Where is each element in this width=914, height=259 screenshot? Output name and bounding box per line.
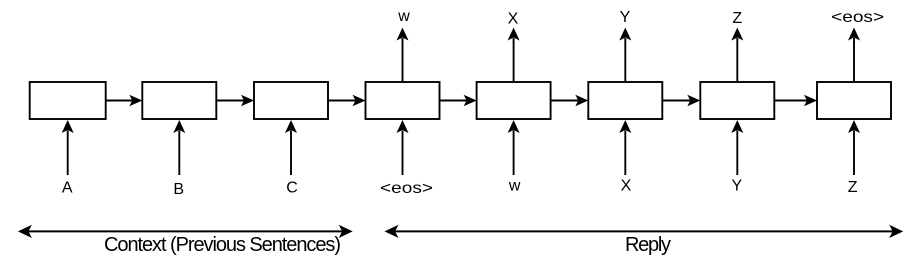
output arrow Y from box 6 [619, 28, 631, 83]
RNN cell box 1 [30, 82, 106, 119]
input arrow C into box 3 [285, 120, 297, 175]
wire arrow box3 to box4 [328, 95, 366, 107]
svg-text:Z: Z [848, 179, 858, 196]
svg-text:<eos>: <eos> [380, 180, 433, 197]
RNN cell box 5 [477, 82, 551, 119]
svg-text:Context (Previous Sentences): Context (Previous Sentences) [104, 234, 341, 256]
svg-text:Z: Z [732, 10, 742, 27]
svg-text:w: w [508, 177, 521, 194]
output arrow w from box 4 [397, 28, 409, 83]
input arrow B into box 2 [173, 120, 185, 175]
input arrow eos into box 4 [397, 120, 409, 175]
RNN cell box 8 [817, 82, 891, 119]
RNN cell box 4 [366, 82, 440, 119]
output arrow eos from box 8 [848, 28, 860, 83]
svg-text:<eos>: <eos> [831, 9, 884, 26]
output arrow X from box 5 [508, 28, 520, 83]
RNN cell box 3 [254, 82, 328, 119]
wire arrow box7 to box8 [774, 95, 817, 107]
svg-text:Reply: Reply [625, 234, 671, 256]
input arrow X into box 6 [619, 120, 631, 175]
wire arrow box1 to box2 [106, 95, 143, 107]
input arrow Z into box 8 [848, 120, 860, 175]
RNN cell box 6 [588, 82, 662, 119]
svg-text:X: X [508, 10, 519, 27]
wire arrow box2 to box3 [216, 95, 254, 107]
svg-text:A: A [62, 180, 73, 197]
RNN cell box 7 [700, 82, 774, 119]
svg-text:w: w [397, 8, 410, 25]
svg-text:C: C [286, 180, 298, 197]
svg-text:B: B [173, 181, 184, 198]
input arrow Y into box 7 [731, 120, 743, 175]
wire arrow box5 to box6 [551, 95, 589, 107]
svg-text:X: X [621, 178, 632, 195]
svg-text:Y: Y [620, 9, 631, 26]
input arrow A into box 1 [62, 120, 74, 175]
svg-text:Y: Y [731, 178, 742, 195]
output arrow Z from box 7 [731, 28, 743, 83]
context span double arrow [18, 225, 353, 238]
reply span double arrow [385, 225, 904, 238]
wire arrow box4 to box5 [440, 95, 477, 107]
RNN cell box 2 [142, 82, 216, 119]
wire arrow box6 to box7 [662, 95, 700, 107]
input arrow w into box 5 [508, 120, 520, 175]
